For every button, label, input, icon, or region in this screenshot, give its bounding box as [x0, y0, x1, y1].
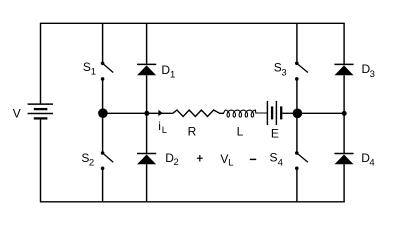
wire top rail — [40, 22, 345, 24]
wire D1D2 leg bottom — [146, 164, 148, 202]
node junction D1D2 small — [144, 111, 149, 116]
svg-text:3: 3 — [281, 68, 286, 79]
wire mid left — [103, 112, 173, 114]
diode D1 — [137, 64, 156, 75]
resistor R — [173, 110, 224, 117]
wire S1S2 leg bottom — [102, 170, 104, 202]
current arrow iL — [158, 110, 162, 117]
wire D3D4 rail bottom — [343, 164, 345, 202]
svg-text:L: L — [162, 125, 167, 136]
wire S1S2 leg top — [102, 23, 104, 62]
label - (VL polarity minus) — [250, 158, 256, 160]
wire D3D4 rail middle — [343, 75, 345, 153]
svg-text:L: L — [237, 125, 244, 139]
wire S1S2 leg middle — [102, 80, 104, 151]
svg-text:L: L — [228, 158, 233, 169]
wire S3S4 leg middle — [296, 80, 298, 151]
source E — [267, 101, 281, 125]
svg-text:1: 1 — [91, 67, 96, 78]
svg-text:4: 4 — [369, 158, 374, 169]
node junction left big — [98, 108, 108, 118]
switch S4 — [295, 151, 308, 170]
wire bottom rail — [40, 201, 345, 203]
svg-text:1: 1 — [170, 70, 175, 81]
inductor L — [224, 110, 267, 117]
wire D3D4 rail top — [343, 23, 345, 64]
wire D1D2 leg top — [146, 23, 148, 64]
diode D3 — [334, 64, 353, 75]
node junction D3D4 small — [342, 111, 347, 116]
svg-text:4: 4 — [278, 157, 283, 168]
svg-text:3: 3 — [370, 69, 375, 80]
wire mid right — [282, 112, 344, 114]
svg-text:2: 2 — [89, 158, 94, 169]
source V — [28, 104, 53, 118]
switch S2 — [101, 151, 113, 170]
svg-text:2: 2 — [174, 157, 179, 168]
wire S3S4 leg top — [296, 23, 298, 62]
switch S3 — [295, 62, 308, 81]
wire left rail lower — [40, 118, 42, 201]
wire D1D2 leg middle — [146, 75, 148, 153]
label + (VL polarity plus) — [197, 155, 203, 162]
node junction right big — [293, 109, 303, 119]
wire S3S4 leg bottom — [296, 170, 298, 202]
svg-text:R: R — [188, 125, 197, 139]
svg-text:i: i — [158, 119, 161, 133]
diode D4 — [334, 154, 353, 165]
switch S1 — [101, 62, 113, 81]
svg-text:S: S — [270, 151, 278, 165]
wire left rail upper — [40, 23, 42, 104]
diode D2 — [137, 154, 156, 165]
svg-text:E: E — [271, 127, 279, 141]
svg-text:V: V — [13, 106, 21, 120]
